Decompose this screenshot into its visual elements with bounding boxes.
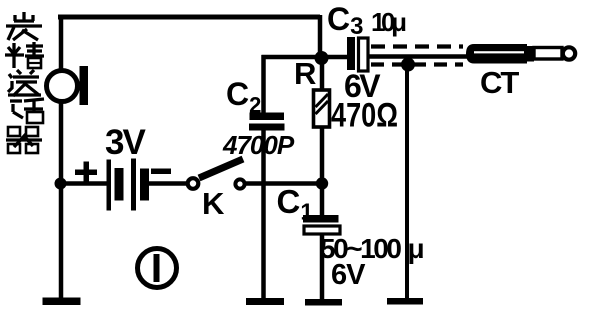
microphone MIC circle — [47, 71, 78, 102]
capacitor C3 minus plate (hollow) — [359, 38, 369, 71]
wire battery right lead — [148, 181, 186, 186]
switch K right contact — [235, 179, 244, 188]
svg-text:μ: μ — [408, 233, 425, 264]
wire upper dashed cable — [371, 44, 463, 48]
figure number circled 1 — [138, 249, 177, 288]
earphone plug CT body — [466, 44, 575, 64]
wire C1 to ground — [320, 234, 325, 300]
wire switch to node B — [246, 181, 322, 186]
node junction dot on cable return — [401, 58, 415, 72]
svg-text:6V: 6V — [344, 68, 381, 104]
wire left vertical below microphone — [59, 103, 64, 300]
ground 2 (C2 branch) — [246, 298, 284, 305]
resistor R body with hatch — [314, 90, 330, 127]
svg-text:K: K — [202, 186, 225, 221]
node junction dot left (battery tap) — [55, 178, 67, 190]
battery BT plates — [107, 159, 150, 211]
wire top-right vertical into node A — [318, 15, 323, 58]
label - minus sign — [151, 169, 171, 175]
wire C2 branch vertical upper — [261, 55, 266, 113]
label: carbon microphone Chinese text 炭精送话器 — [5, 12, 44, 153]
switch K left contact — [188, 178, 199, 189]
capacitor C1 plus plate — [303, 215, 339, 223]
svg-text:CT: CT — [480, 65, 519, 100]
capacitor C1 minus plate (hollow) — [304, 226, 340, 234]
node junction dot B — [316, 177, 328, 189]
wire node B to C1 — [320, 184, 325, 216]
svg-text:4700P: 4700P — [222, 130, 295, 160]
char 精 — [5, 42, 44, 68]
wire resistor bottom to node B — [320, 127, 325, 184]
char 炭 — [6, 12, 42, 40]
ground 4 (cable return) — [387, 298, 423, 305]
wire battery left lead — [60, 181, 108, 186]
ground 3 (C1) — [305, 299, 342, 306]
switch K lever — [199, 159, 243, 178]
wire node A to resistor top — [320, 58, 325, 91]
wire cable return to ground — [405, 64, 409, 300]
wire left vertical above microphone — [59, 15, 64, 69]
wire lower dashed cable — [371, 62, 463, 66]
svg-text:10μ: 10μ — [371, 7, 407, 37]
svg-text:R: R — [294, 56, 316, 91]
node junction dot A — [315, 51, 329, 65]
label + plus sign — [75, 162, 97, 183]
microphone carbon button bar — [80, 66, 89, 105]
svg-text:3V: 3V — [105, 123, 146, 162]
svg-text:6V: 6V — [331, 259, 366, 291]
capacitor C2 plates — [250, 113, 285, 121]
wire C2 branch vertical lower to ground — [261, 130, 266, 300]
char 器 — [6, 127, 42, 153]
char 送 — [8, 70, 41, 96]
wire node A horizontal — [262, 55, 349, 60]
wire top rail — [58, 15, 320, 20]
char 话 — [10, 99, 44, 123]
capacitor C3 plus plate — [347, 37, 355, 70]
wire C3 to plug — [368, 54, 470, 59]
ground 1 (left) — [43, 298, 81, 306]
